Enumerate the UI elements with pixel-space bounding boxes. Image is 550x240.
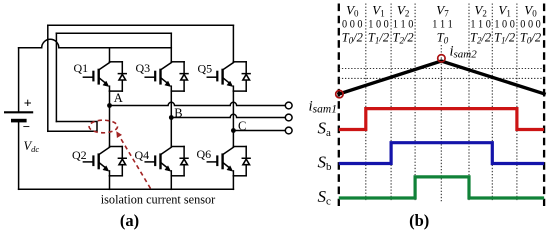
current waveform <box>339 61 544 94</box>
svg-text:Q1: Q1 <box>74 61 89 75</box>
node C <box>231 128 236 133</box>
isolation current sensor ellipse <box>89 120 117 133</box>
wire Q6 emitter to rail <box>232 176 234 190</box>
svg-text:Q4: Q4 <box>135 148 150 162</box>
svg-text:1 0 0: 1 0 0 <box>494 19 515 31</box>
battery V_dc positive plate <box>4 111 33 113</box>
node A <box>107 103 112 108</box>
svg-text:1 1 0: 1 1 0 <box>393 19 414 31</box>
svg-text:V0: V0 <box>524 3 537 19</box>
frame left dashed boundary <box>338 4 340 207</box>
svg-text:T0: T0 <box>437 31 449 46</box>
svg-text:T0/2: T0/2 <box>520 31 541 46</box>
waveform S_b <box>339 143 544 164</box>
svg-text:0 0 0: 0 0 0 <box>342 19 363 31</box>
wire rail to Q5 collector (y=25) <box>48 24 234 26</box>
column label V7 segment 4 <box>432 3 453 46</box>
svg-text:V1: V1 <box>498 3 510 19</box>
transistor Q1 <box>110 61 123 63</box>
svg-text:−: − <box>23 119 30 134</box>
terminal B <box>285 114 292 121</box>
sample marker i_sam2 <box>438 55 445 62</box>
grid vertical dotted line 1 <box>365 4 367 202</box>
svg-text:T2/2: T2/2 <box>393 31 414 46</box>
svg-text:V7: V7 <box>436 3 449 19</box>
svg-text:Sa: Sa <box>318 119 332 140</box>
svg-text:isam2: isam2 <box>450 44 478 61</box>
grid vertical dotted line 2 <box>390 4 392 202</box>
grid vertical dotted line 5 <box>491 4 493 202</box>
svg-text:(a): (a) <box>120 211 139 230</box>
svg-text:V0: V0 <box>346 3 359 19</box>
svg-text:(b): (b) <box>409 211 429 230</box>
grid vertical dotted centre line <box>440 45 442 202</box>
frame right dashed boundary <box>543 4 545 207</box>
wire battery negative to bottom rail <box>18 122 20 189</box>
svg-text:Sb: Sb <box>318 153 333 174</box>
grid vertical dotted line 3 <box>414 4 416 202</box>
svg-text:V1: V1 <box>372 3 384 19</box>
svg-text:V2: V2 <box>397 3 409 19</box>
grid horizontal dotted line 1 <box>339 68 544 70</box>
wire top rail to Q1/Q3 with hop over sensor wires <box>19 39 172 48</box>
column label V2 segment 3 <box>393 3 414 46</box>
column label V1 segment 6 <box>494 3 515 46</box>
node B <box>169 115 174 120</box>
svg-text:Vdc: Vdc <box>24 139 40 154</box>
grid vertical dotted line 6 <box>516 4 518 202</box>
wire sensor loop through current sensor <box>48 122 97 132</box>
svg-text:1 0 0: 1 0 0 <box>368 19 389 31</box>
svg-text:T2/2: T2/2 <box>470 31 491 46</box>
battery V_dc negative plate <box>11 119 27 123</box>
column label V2 segment 5 <box>470 3 491 46</box>
wire sensor loop left leg <box>47 25 49 131</box>
wire phase leg C <box>232 91 234 146</box>
wire Q4 emitter to rail <box>170 176 172 190</box>
sample marker i_sam1 <box>336 90 343 97</box>
svg-text:T1/2: T1/2 <box>368 31 389 46</box>
svg-text:isam1: isam1 <box>309 99 337 116</box>
wire phase B output with hop <box>171 114 285 117</box>
wire Q2 emitter to rail <box>109 176 111 190</box>
terminal C <box>285 127 292 134</box>
svg-text:T1/2: T1/2 <box>494 31 515 46</box>
svg-text:Q6: Q6 <box>197 147 212 161</box>
svg-text:T0/2: T0/2 <box>342 31 363 46</box>
wire Q5 collector drop <box>232 25 234 62</box>
wire phase leg B <box>170 91 172 146</box>
transistor Q5 <box>233 61 246 63</box>
svg-text:Q2: Q2 <box>72 148 87 162</box>
wire bottom rail <box>19 188 234 190</box>
svg-text:0 0 0: 0 0 0 <box>520 19 541 31</box>
waveform S_a <box>339 109 544 130</box>
isolation current sensor arrow <box>116 131 150 188</box>
transistor Q2 <box>110 146 123 148</box>
svg-text:+: + <box>24 97 32 112</box>
transistor Q4 <box>171 146 184 148</box>
wire rail to Q3 collector (y=33) <box>56 32 171 34</box>
column label V0 segment 1 <box>342 3 363 46</box>
svg-text:1 1 0: 1 1 0 <box>470 19 491 31</box>
grid horizontal dotted line 2 <box>339 77 544 79</box>
wire phase C output <box>233 130 285 132</box>
svg-text:Sc: Sc <box>318 187 332 208</box>
wire sensor loop right leg <box>55 33 57 121</box>
wire battery positive to top rail <box>18 48 20 112</box>
column label V1 segment 2 <box>368 3 389 46</box>
svg-text:1 1 1: 1 1 1 <box>432 19 453 31</box>
terminal A <box>285 102 292 109</box>
svg-text:V2: V2 <box>474 3 486 19</box>
svg-text:Q3: Q3 <box>136 61 151 75</box>
svg-text:A: A <box>114 91 123 105</box>
wire Q1 collector drop <box>109 48 111 62</box>
transistor Q3 <box>171 61 184 63</box>
wire Q3 collector drop <box>170 33 172 62</box>
grid vertical dotted line 4 <box>468 4 470 202</box>
transistor Q6 <box>233 146 246 148</box>
wire phase leg A <box>109 91 111 146</box>
waveform S_c <box>339 177 544 198</box>
column label V0 segment 7 <box>520 3 541 46</box>
svg-text:Q5: Q5 <box>198 61 213 75</box>
svg-text:isolation current sensor: isolation current sensor <box>101 193 216 207</box>
wire phase A output with hops <box>110 102 286 105</box>
